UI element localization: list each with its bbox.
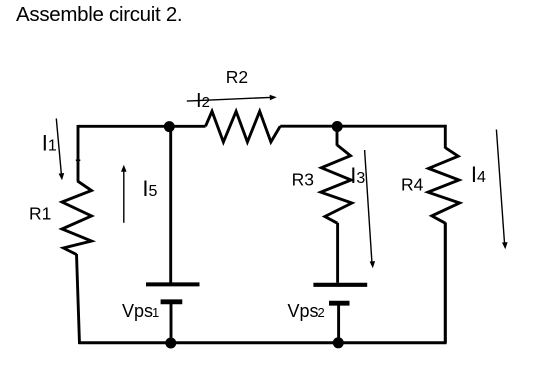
svg-text:R1: R1 xyxy=(29,203,51,223)
resistor R1 xyxy=(62,181,92,255)
svg-text:I5: I5 xyxy=(142,176,157,201)
svg-text:R3: R3 xyxy=(292,170,314,190)
current arrow I2 xyxy=(187,95,277,101)
svg-text:R2: R2 xyxy=(226,67,248,87)
wire R3 upper stub xyxy=(336,126,339,146)
wire R3 to Vps2 xyxy=(336,223,339,283)
wire stub tick xyxy=(76,159,81,161)
wire Vps1 branch lower xyxy=(170,302,173,343)
wire left upper xyxy=(77,125,80,182)
svg-text:Vps1: Vps1 xyxy=(122,301,159,321)
resistor R3 xyxy=(321,145,352,223)
resistor R4 xyxy=(428,148,460,223)
wire right lower xyxy=(444,223,447,343)
current arrow I3 xyxy=(365,150,376,268)
node bottom-left junction xyxy=(165,338,176,349)
svg-text:Vps2: Vps2 xyxy=(288,301,325,321)
wire right upper xyxy=(444,125,447,149)
battery Vps1 short plate xyxy=(161,299,183,304)
svg-text:Assemble circuit 2.: Assemble circuit 2. xyxy=(16,3,182,26)
current arrow I5 xyxy=(121,165,127,223)
current arrow I1 xyxy=(56,119,64,181)
battery Vps1 long plate xyxy=(146,282,200,286)
wire top left segment xyxy=(78,125,206,128)
svg-text:R4: R4 xyxy=(401,175,424,195)
current arrow I4 xyxy=(496,130,507,250)
svg-text:I1: I1 xyxy=(42,130,57,155)
wire Vps1 branch upper xyxy=(169,126,172,283)
wire Vps2 branch lower xyxy=(337,303,340,343)
battery Vps2 short plate xyxy=(329,301,350,306)
node bottom-right junction xyxy=(333,337,344,348)
node top-right junction xyxy=(332,121,343,132)
wire left lower xyxy=(77,254,80,344)
wire top right segment xyxy=(280,125,446,128)
svg-text:I4: I4 xyxy=(471,162,486,187)
wire bottom xyxy=(79,341,447,344)
svg-text:I3: I3 xyxy=(350,163,365,188)
resistor R2 xyxy=(206,111,281,142)
battery Vps2 long plate xyxy=(313,283,367,287)
node top-left junction xyxy=(164,121,175,132)
